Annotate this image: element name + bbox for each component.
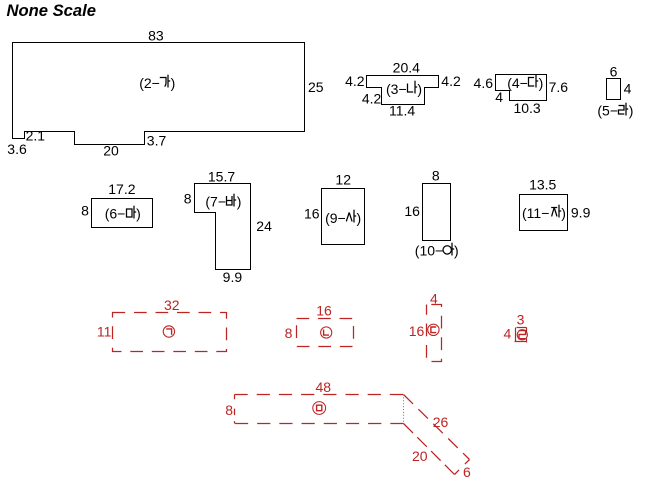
svg-text:24: 24 — [256, 218, 272, 234]
svg-text:8: 8 — [285, 325, 293, 341]
red shape E diagonal upper edge — [404, 395, 470, 460]
svg-text:4.6: 4.6 — [474, 75, 494, 91]
red shape E dashed bar — [235, 394, 404, 396]
svg-text:): ) — [629, 102, 634, 118]
symbol circled rieul — [517, 330, 527, 340]
svg-text:): ) — [561, 205, 566, 221]
svg-text:(11−: (11− — [522, 205, 549, 221]
symbol circled nieun — [321, 327, 332, 338]
symbol circled digeut — [428, 324, 439, 335]
shape (5-ra) rect — [607, 79, 621, 100]
svg-text:7.6: 7.6 — [549, 79, 569, 95]
svg-text:25: 25 — [308, 79, 324, 95]
svg-text:8: 8 — [184, 191, 192, 207]
svg-text:13.5: 13.5 — [529, 177, 556, 193]
svg-text:16: 16 — [304, 206, 320, 222]
shape (7-ba) outline — [195, 184, 251, 270]
svg-text:): ) — [171, 75, 176, 91]
svg-text:4.2: 4.2 — [441, 73, 461, 89]
svg-text:9.9: 9.9 — [571, 205, 591, 221]
svg-text:8: 8 — [432, 168, 440, 184]
svg-text:None Scale: None Scale — [7, 1, 96, 20]
svg-text:(4−: (4− — [507, 75, 528, 91]
svg-text:6: 6 — [463, 464, 471, 480]
svg-text:(5−: (5− — [597, 102, 618, 118]
svg-text:6: 6 — [610, 63, 618, 79]
shape (10-a) rect — [423, 184, 451, 241]
svg-text:32: 32 — [164, 297, 180, 313]
svg-text:4.2: 4.2 — [362, 90, 382, 106]
svg-text:17.2: 17.2 — [108, 181, 135, 197]
svg-text:20: 20 — [412, 448, 428, 464]
svg-text:15.7: 15.7 — [208, 169, 235, 185]
svg-text:11.4: 11.4 — [389, 103, 415, 119]
svg-text:4: 4 — [495, 89, 503, 105]
red shape E dotted joint — [403, 395, 405, 424]
svg-text:(6−: (6− — [105, 205, 126, 221]
red shape E diagonal lower edge — [404, 424, 455, 475]
shape (11-ja) rect — [520, 195, 568, 231]
svg-text:20.4: 20.4 — [393, 59, 420, 75]
shape (6-ma) rect — [92, 199, 153, 228]
svg-text:3: 3 — [517, 312, 525, 328]
svg-text:8: 8 — [81, 203, 89, 219]
shape (2-ga) outline — [13, 43, 305, 145]
svg-text:3.6: 3.6 — [7, 141, 27, 157]
svg-text:26: 26 — [433, 414, 449, 430]
symbol circled giyeok — [163, 326, 174, 337]
svg-text:4: 4 — [624, 80, 632, 96]
svg-text:8: 8 — [225, 402, 233, 418]
svg-text:): ) — [357, 210, 362, 226]
svg-text:4: 4 — [504, 325, 512, 341]
shape (9-sa) rect — [322, 189, 365, 245]
symbol circled mieum — [313, 402, 326, 415]
svg-text:3.7: 3.7 — [147, 133, 167, 149]
svg-text:(3−: (3− — [386, 81, 407, 97]
svg-text:): ) — [539, 75, 544, 91]
svg-text:): ) — [136, 205, 141, 221]
svg-text:48: 48 — [316, 379, 332, 395]
red shape C dashed rect — [427, 305, 442, 362]
svg-text:10.3: 10.3 — [513, 100, 540, 116]
red shape E end cap — [455, 460, 470, 475]
svg-text:83: 83 — [148, 27, 164, 43]
svg-text:16: 16 — [404, 203, 420, 219]
svg-text:16: 16 — [316, 302, 332, 318]
svg-text:): ) — [237, 193, 242, 209]
svg-text:2.1: 2.1 — [26, 128, 46, 144]
red shape D small dashed square — [515, 328, 517, 342]
shape (4-da) outline — [496, 75, 547, 101]
svg-text:): ) — [417, 81, 422, 97]
svg-text:(10−: (10− — [415, 243, 443, 259]
svg-text:4.2: 4.2 — [345, 73, 365, 89]
red shape A dashed rect — [113, 313, 227, 352]
svg-text:(7−: (7− — [205, 193, 226, 209]
svg-text:(2−: (2− — [139, 75, 160, 91]
svg-text:4: 4 — [430, 290, 438, 306]
svg-text:20: 20 — [103, 142, 119, 158]
svg-text:(9−: (9− — [325, 210, 346, 226]
svg-text:11: 11 — [97, 324, 112, 340]
svg-text:12: 12 — [335, 172, 351, 188]
svg-text:16: 16 — [409, 323, 425, 339]
red shape B dashed rect — [297, 319, 354, 347]
shape (3-na) outline — [367, 76, 439, 105]
svg-text:9.9: 9.9 — [223, 269, 243, 285]
svg-text:): ) — [454, 243, 459, 259]
